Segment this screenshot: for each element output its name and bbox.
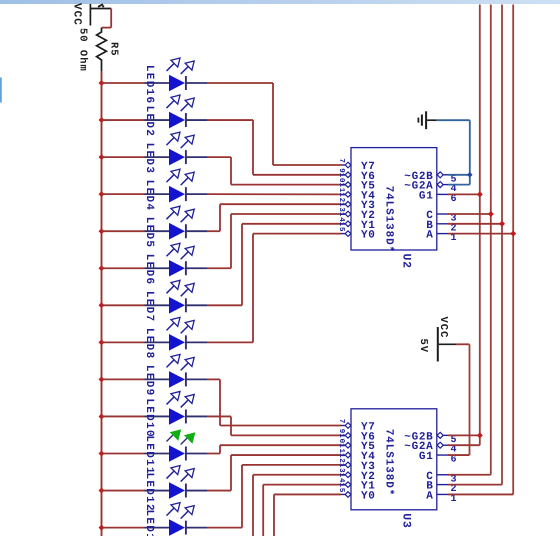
junction bus/LED11 bbox=[99, 451, 105, 457]
svg-text:LED7: LED7 bbox=[143, 291, 155, 323]
svg-text:7: 7 bbox=[337, 158, 345, 163]
svg-text:74LS138D*: 74LS138D* bbox=[383, 429, 395, 497]
U2 pin G1 (pin 6) bbox=[419, 190, 457, 205]
U3 pin Y4 (pin 11) bbox=[337, 443, 376, 463]
LED LED7 bbox=[145, 280, 208, 313]
LED LED13 bbox=[145, 503, 208, 536]
wire ground to U2 G2A/G2B bbox=[437, 120, 470, 184]
U2 pin Y3 (pin 12) bbox=[337, 192, 376, 212]
power symbol VCC 5V bbox=[417, 317, 456, 362]
svg-text:11: 11 bbox=[337, 443, 345, 453]
wire U3 B corner from net bbox=[448, 484, 502, 486]
U3 pin B (pin 2) bbox=[426, 481, 457, 496]
wire LED3 anode bbox=[102, 156, 145, 158]
wire LED14 cathode to decoder (from below) bbox=[253, 475, 341, 536]
op-amp U2 74LS138D decoder body bbox=[351, 148, 437, 250]
svg-text:50 Ohm: 50 Ohm bbox=[77, 28, 89, 72]
wire LED16 cathode to decoder bbox=[207, 83, 341, 165]
wire LED5 anode bbox=[102, 230, 145, 232]
U3 pin Y6 (pin 9) bbox=[337, 429, 376, 444]
svg-text:74LS138D*: 74LS138D* bbox=[383, 186, 395, 254]
wire LED2 anode bbox=[102, 119, 145, 121]
junction bus/LED13 bbox=[99, 525, 105, 531]
wire LED9 anode bbox=[102, 378, 145, 380]
wire U2 B to net bbox=[448, 223, 502, 225]
LED LED2 bbox=[145, 95, 208, 128]
junction net at U2 G1 bbox=[477, 191, 483, 197]
svg-text:6: 6 bbox=[451, 455, 458, 466]
U2 pin Y1 (pin 14) bbox=[337, 212, 376, 232]
wire VCC to R5 (stepped) bbox=[90, 9, 111, 28]
wire LED11 anode bbox=[102, 453, 145, 455]
left edge blue strip (decorative) bbox=[0, 78, 2, 103]
ground bbox=[418, 111, 436, 129]
svg-text:U2: U2 bbox=[400, 254, 413, 269]
wire LED16 anode bbox=[102, 82, 145, 84]
junction bus/LED6 bbox=[99, 265, 105, 271]
svg-text:7: 7 bbox=[337, 419, 345, 424]
wire VCC to U3 G1 bbox=[448, 344, 470, 455]
junction ground net at U2 G2B bbox=[467, 172, 473, 178]
svg-text:G1: G1 bbox=[419, 451, 434, 463]
wire U3 C corner from net bbox=[448, 474, 491, 476]
svg-text:LED4: LED4 bbox=[143, 180, 155, 212]
svg-text:VCC: VCC bbox=[71, 3, 83, 26]
wire LED11 cathode to decoder bbox=[207, 445, 341, 453]
wire U2 G1 to net bbox=[448, 193, 480, 195]
LED LED8 bbox=[145, 317, 208, 350]
resistor R5 50 Ohm bbox=[97, 28, 107, 71]
junction bus/LED9 bbox=[99, 376, 105, 382]
U2 pin Y0 (pin 15) bbox=[337, 222, 376, 242]
junction bus/LED5 bbox=[99, 228, 105, 234]
svg-text:15: 15 bbox=[337, 222, 345, 232]
LED LED5 bbox=[145, 206, 208, 239]
junction net at U2 B bbox=[499, 221, 505, 227]
wire LED5 cathode to decoder bbox=[207, 204, 341, 231]
LED LED16 bbox=[145, 58, 208, 91]
svg-text:A: A bbox=[426, 230, 433, 242]
wire LED4 anode bbox=[102, 193, 145, 195]
svg-text:LED10: LED10 bbox=[143, 398, 155, 438]
U2 pin A (pin 1) bbox=[426, 230, 457, 245]
junction bus/LED3 bbox=[99, 154, 105, 160]
svg-text:15: 15 bbox=[337, 483, 345, 493]
junction net at U2 C bbox=[488, 211, 494, 217]
U3 pin A (pin 1) bbox=[426, 490, 457, 505]
wire LED7 cathode to decoder bbox=[207, 224, 341, 305]
junction bus/LED16 bbox=[99, 80, 105, 86]
svg-text:LED13: LED13 bbox=[143, 510, 155, 536]
window top edge bar (decorative) bbox=[0, 0, 560, 4]
wire U3 G2B to net bbox=[448, 434, 480, 436]
wire U2 C to net bbox=[448, 213, 491, 215]
junction bus/LED7 bbox=[99, 302, 105, 308]
U3 pin Y7 (pin 7) bbox=[337, 419, 376, 434]
U2 pin Y5 (pin 10) bbox=[337, 173, 376, 193]
wire LED12 anode bbox=[102, 490, 145, 492]
LED LED11 (lit, green) bbox=[145, 429, 208, 462]
svg-text:A: A bbox=[426, 490, 433, 502]
svg-text:Y0: Y0 bbox=[361, 490, 376, 502]
svg-text:1: 1 bbox=[451, 494, 458, 505]
wire net A0 vertical (G1/G2 select) bbox=[479, 5, 481, 446]
wire U3 A corner from net bbox=[448, 493, 513, 495]
svg-text:10: 10 bbox=[337, 433, 346, 443]
wire net B vertical bbox=[501, 5, 503, 485]
U2 pin Y6 (pin 9) bbox=[337, 168, 376, 183]
junction bus/LED4 bbox=[99, 191, 105, 197]
junction net at U3 G2B bbox=[477, 432, 483, 438]
LED LED10 bbox=[145, 391, 208, 424]
wire LED13 cathode to decoder bbox=[207, 465, 341, 528]
U3 pin C (pin 3) bbox=[426, 471, 457, 486]
wire LED7 anode bbox=[102, 304, 145, 306]
svg-text:1: 1 bbox=[451, 233, 458, 244]
U2 pin C (pin 3) bbox=[426, 210, 457, 225]
U2 pin Y2 (pin 13) bbox=[337, 202, 376, 222]
op-amp U3 74LS138D decoder body bbox=[351, 409, 437, 510]
wire LED6 anode bbox=[102, 267, 145, 269]
wire LED3 cathode to decoder bbox=[207, 157, 341, 185]
U2 pin Y4 (pin 11) bbox=[337, 183, 376, 203]
wire LED10 anode bbox=[102, 415, 145, 417]
wire LED6 cathode to decoder bbox=[207, 214, 341, 268]
wire LED15 cathode to decoder (from below) bbox=[263, 485, 341, 536]
wire net A vertical bbox=[512, 5, 514, 495]
junction bus/LED12 bbox=[99, 488, 105, 494]
wire net C vertical bbox=[490, 5, 492, 475]
svg-text:LED5: LED5 bbox=[143, 217, 155, 249]
wire LED12 cathode to decoder bbox=[207, 455, 341, 491]
LED LED6 bbox=[145, 243, 208, 276]
wire LED13 anode bbox=[102, 527, 145, 529]
svg-text:LED8: LED8 bbox=[143, 328, 155, 360]
LED LED3 bbox=[145, 132, 208, 165]
svg-text:U3: U3 bbox=[400, 513, 413, 528]
svg-text:LED2: LED2 bbox=[143, 106, 155, 138]
wire LED9 cathode to decoder bbox=[207, 379, 341, 425]
U2 pin G2A (pin 4) bbox=[404, 181, 457, 196]
wire U2 A to net bbox=[448, 233, 513, 235]
U3 pin Y5 (pin 10) bbox=[337, 433, 376, 453]
U2 pin G2B (pin 5) bbox=[404, 171, 457, 186]
LED LED9 bbox=[145, 354, 208, 387]
wire anode bus vertical bbox=[101, 71, 103, 536]
U3 pin G1 (pin 6) bbox=[419, 451, 457, 466]
svg-text:14: 14 bbox=[337, 473, 345, 483]
LED LED4 bbox=[145, 169, 208, 202]
U2 pin B (pin 2) bbox=[426, 220, 457, 235]
wire LED4 cathode to decoder bbox=[207, 193, 341, 195]
wire U3 G2A corner from net bbox=[448, 444, 480, 446]
svg-text:VCC: VCC bbox=[437, 317, 449, 339]
svg-text:LED16: LED16 bbox=[143, 65, 155, 105]
svg-text:13: 13 bbox=[337, 463, 346, 473]
U3 pin G2A (pin 4) bbox=[404, 441, 457, 456]
svg-text:Y0: Y0 bbox=[361, 230, 376, 242]
junction bus/LED10 bbox=[99, 413, 105, 419]
svg-text:LED6: LED6 bbox=[143, 254, 155, 286]
svg-text:R5: R5 bbox=[108, 42, 120, 57]
U3 pin Y1 (pin 14) bbox=[337, 473, 376, 493]
cut-off component stub at top edge bbox=[98, 4, 104, 7]
svg-text:LED11: LED11 bbox=[143, 435, 155, 475]
U2 pin Y7 (pin 7) bbox=[337, 158, 376, 173]
svg-text:LED12: LED12 bbox=[143, 472, 155, 512]
svg-text:5V: 5V bbox=[417, 339, 429, 354]
svg-text:12: 12 bbox=[337, 453, 346, 463]
svg-text:LED3: LED3 bbox=[143, 143, 155, 175]
wire LED8 cathode to decoder bbox=[207, 234, 341, 343]
U3 pin Y0 (pin 15) bbox=[337, 483, 376, 503]
svg-text:6: 6 bbox=[451, 194, 458, 205]
svg-text:LED9: LED9 bbox=[143, 365, 155, 397]
wire LED8 anode bbox=[102, 341, 145, 343]
wire LED10 cathode to decoder bbox=[207, 416, 341, 435]
junction bus/LED8 bbox=[99, 339, 105, 345]
svg-text:G1: G1 bbox=[419, 190, 434, 202]
wire LED2 cathode to decoder bbox=[207, 120, 341, 175]
junction net at U2 A bbox=[510, 231, 516, 237]
U3 pin Y2 (pin 13) bbox=[337, 463, 376, 483]
LED LED12 bbox=[145, 466, 208, 499]
U3 pin G2B (pin 5) bbox=[404, 431, 457, 446]
wire LED16 cathode to decoder (from below) bbox=[274, 494, 341, 536]
power symbol VCC (top left) bbox=[71, 3, 91, 26]
U3 pin Y3 (pin 12) bbox=[337, 453, 376, 473]
junction bus/LED2 bbox=[99, 117, 105, 123]
